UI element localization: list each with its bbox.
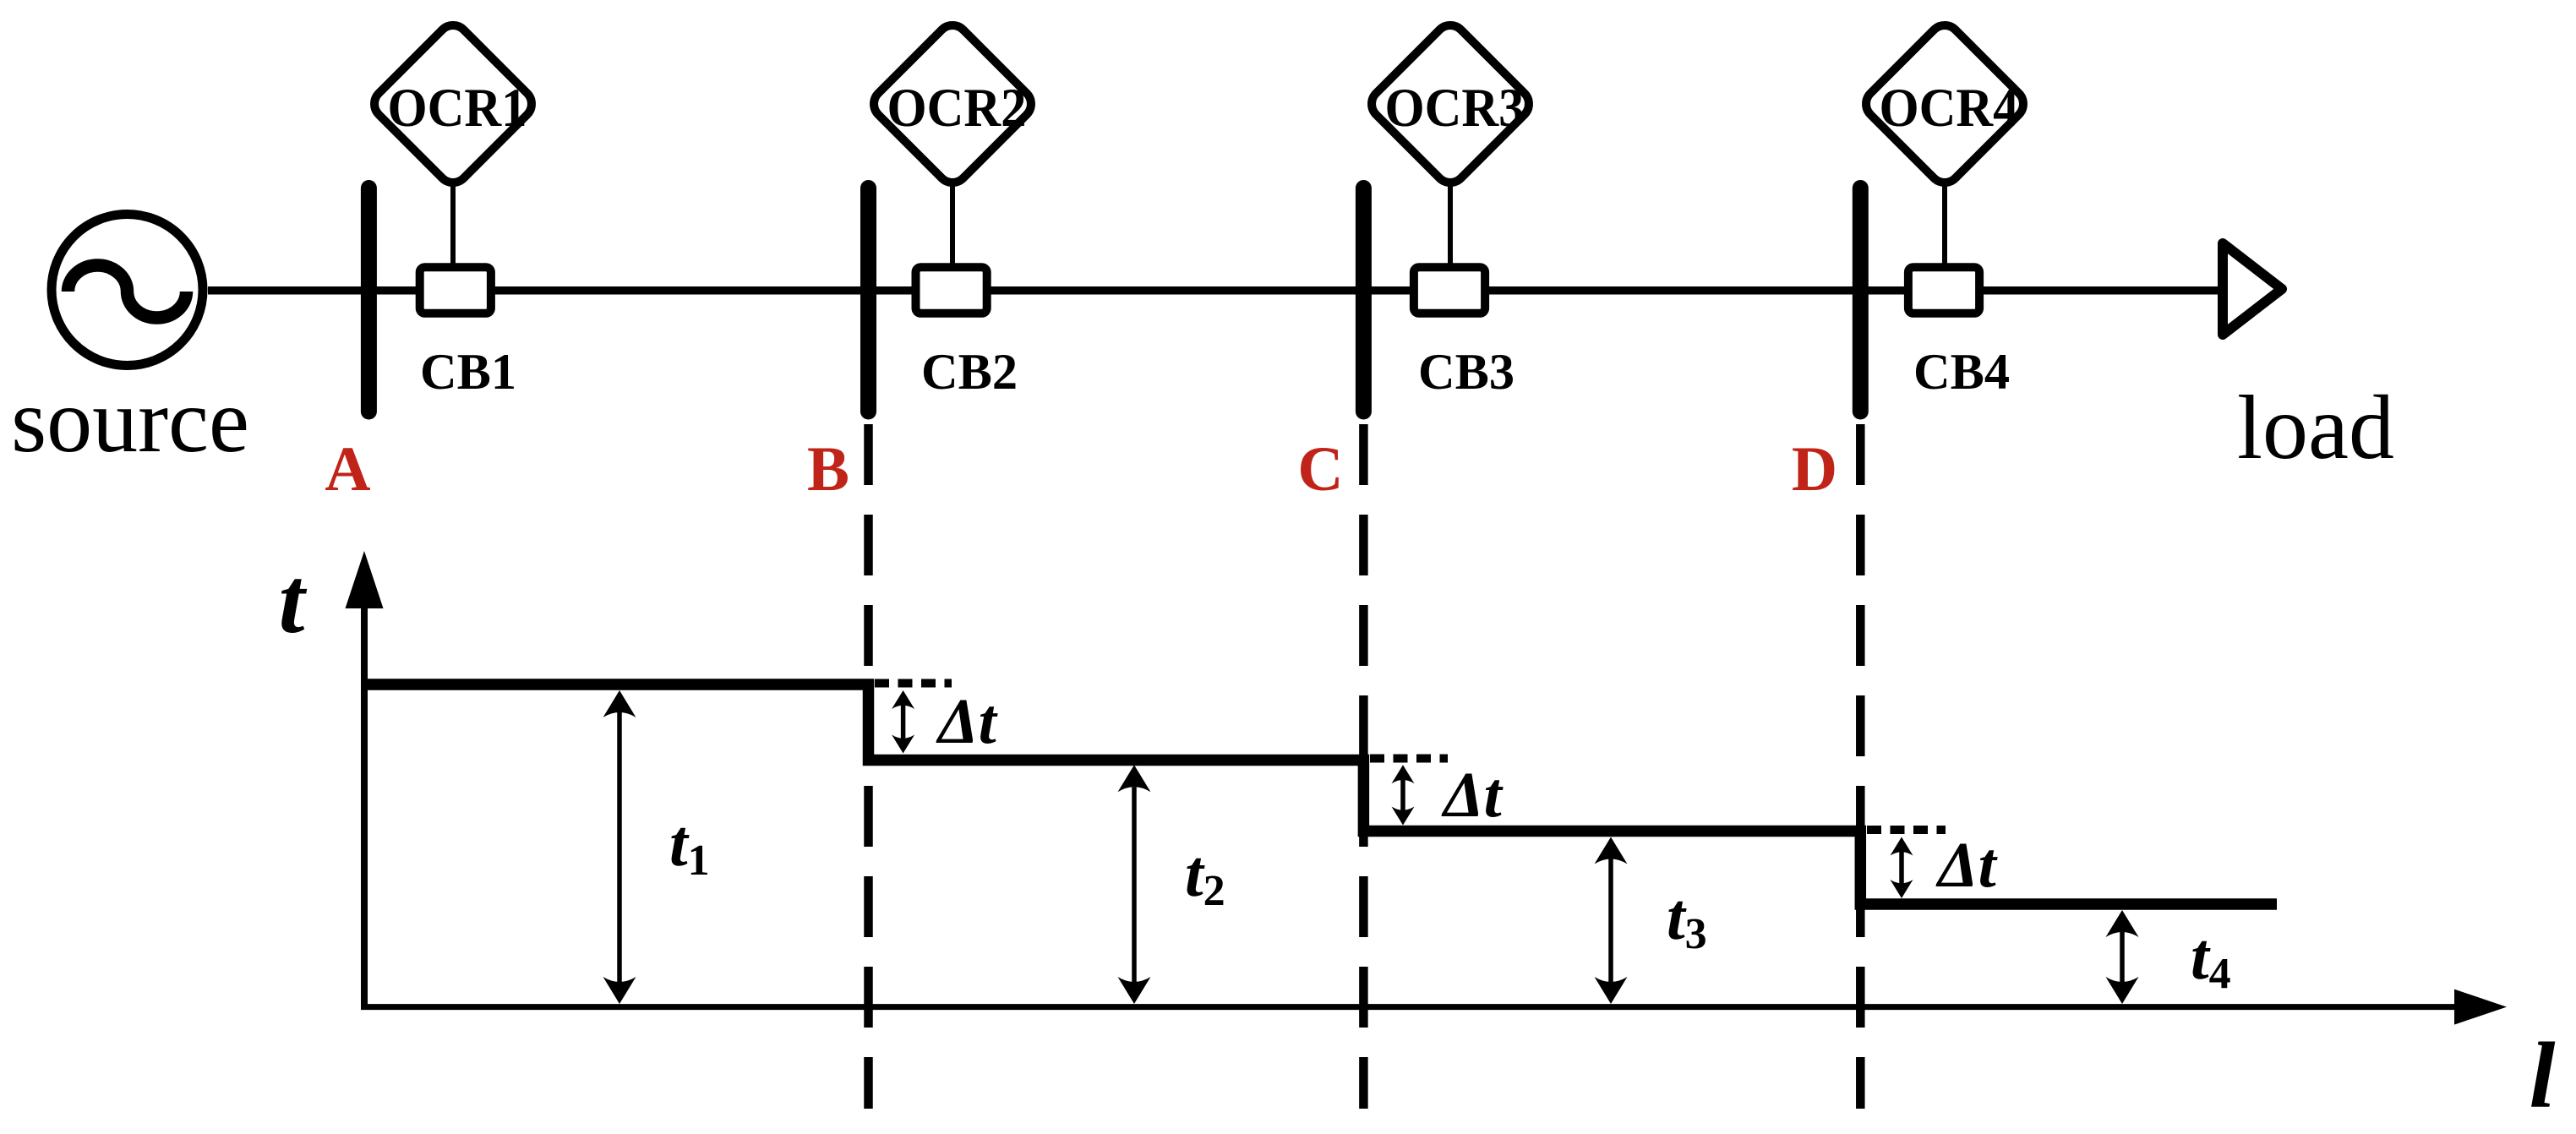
dashed continuation at C	[1370, 755, 1448, 763]
bus C	[1356, 188, 1372, 412]
delta-t arrow at B	[892, 690, 914, 754]
relay OCR4	[1860, 19, 2030, 189]
t3 arrow	[1595, 837, 1628, 1005]
svg-text:source: source	[11, 371, 249, 472]
svg-text:CB2: CB2	[921, 344, 1018, 400]
t axis arrowhead	[346, 551, 384, 608]
wire OCR3 to CB3	[1448, 184, 1453, 264]
wire OCR1 to CB1	[450, 184, 456, 264]
load arrow symbol	[2223, 243, 2282, 335]
svg-text:l: l	[2530, 1024, 2556, 1128]
svg-text:B: B	[807, 434, 849, 504]
delta-t arrow at D	[1891, 837, 1913, 899]
bus A	[361, 188, 377, 412]
relay OCR3	[1366, 19, 1536, 189]
svg-text:A: A	[325, 434, 370, 504]
bus B	[860, 188, 876, 412]
svg-text:OCR1: OCR1	[388, 78, 527, 139]
l axis arrowhead	[2454, 990, 2507, 1025]
wire OCR2 to CB2	[950, 184, 955, 264]
dashed continuation at B	[875, 679, 952, 688]
svg-text:D: D	[1792, 434, 1837, 504]
time grading step curve	[361, 684, 2277, 904]
svg-text:t: t	[279, 549, 308, 653]
dashed line at B	[864, 424, 873, 1109]
svg-text:Δt: Δt	[1935, 830, 1999, 901]
svg-text:OCR3: OCR3	[1385, 78, 1525, 139]
breaker CB1	[420, 267, 491, 313]
svg-text:OCR2: OCR2	[887, 78, 1027, 139]
relay OCR2	[868, 19, 1038, 189]
l axis line	[361, 1004, 2458, 1010]
l axis	[361, 990, 2556, 1128]
svg-text:CB4: CB4	[1913, 344, 2010, 400]
svg-text:load: load	[2237, 378, 2394, 478]
t axis line	[361, 602, 368, 1010]
delta-t arrow at C	[1392, 765, 1415, 825]
svg-text:C: C	[1297, 434, 1343, 504]
bus D	[1853, 188, 1869, 412]
t2 arrow	[1118, 765, 1151, 1004]
svg-text:Δt: Δt	[936, 686, 999, 757]
dashed line at C	[1359, 424, 1368, 1109]
t4 arrow	[2106, 910, 2139, 1004]
breaker CB4	[1908, 267, 1979, 313]
source G1 (AC source circle)	[52, 215, 203, 366]
breaker CB2	[916, 267, 987, 313]
t axis	[279, 549, 384, 1010]
dashed line at D	[1856, 424, 1865, 1109]
wire OCR4 to CB4	[1942, 184, 1947, 264]
svg-text:CB3: CB3	[1418, 344, 1514, 400]
wire main feeder	[208, 286, 2224, 295]
svg-text:CB1: CB1	[420, 344, 516, 400]
svg-text:Δt: Δt	[1441, 760, 1504, 831]
svg-text:OCR4: OCR4	[1880, 78, 2019, 139]
t1 arrow	[603, 690, 636, 1004]
relay OCR1	[368, 19, 538, 189]
breaker CB3	[1414, 267, 1485, 313]
dashed continuation at D	[1867, 826, 1946, 834]
